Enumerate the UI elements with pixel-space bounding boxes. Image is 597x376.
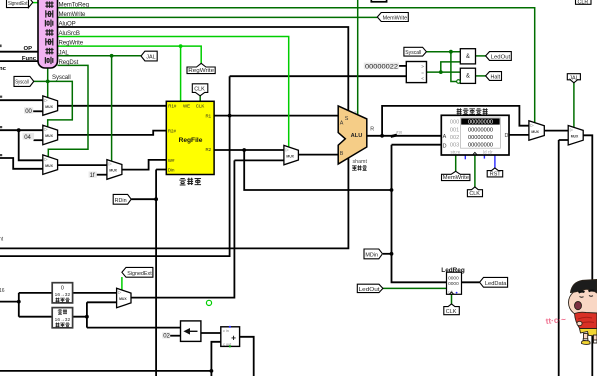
- svg-text:MUX: MUX: [45, 105, 53, 109]
- svg-text:CLK: CLK: [196, 104, 205, 109]
- svg-text:shamt: shamt: [353, 159, 368, 165]
- svg-text:Syscall: Syscall: [405, 50, 421, 56]
- svg-text:S: S: [345, 116, 349, 122]
- svg-text:MUX: MUX: [119, 297, 127, 301]
- svg-text:MUX: MUX: [45, 164, 53, 168]
- svg-text:002: 002: [450, 135, 459, 141]
- svg-text:+: +: [231, 332, 236, 342]
- svg-text:Halt: Halt: [491, 75, 501, 81]
- svg-text:LedOut: LedOut: [359, 287, 381, 293]
- svg-text:WE: WE: [183, 104, 190, 109]
- svg-text:&: &: [466, 54, 470, 60]
- svg-text:R2: R2: [206, 147, 212, 152]
- svg-text:00000022: 00000022: [365, 64, 399, 70]
- svg-text:CLK: CLK: [469, 191, 480, 197]
- svg-text:Syscall: Syscall: [15, 80, 29, 86]
- svg-text:0: 0: [61, 286, 64, 292]
- svg-text:CLR: CLR: [578, 0, 589, 5]
- svg-text:16: 16: [0, 288, 5, 294]
- svg-text:R1: R1: [206, 113, 212, 118]
- svg-text:16→32: 16→32: [55, 292, 71, 298]
- svg-text:04: 04: [24, 135, 31, 141]
- svg-text:A: A: [443, 134, 447, 140]
- svg-text:MDin: MDin: [365, 252, 378, 258]
- svg-text:W#: W#: [168, 158, 175, 163]
- svg-text:R: R: [370, 126, 374, 132]
- svg-text:MUX: MUX: [531, 130, 539, 134]
- svg-text:R1#: R1#: [168, 104, 177, 109]
- svg-text:D: D: [443, 143, 447, 149]
- svg-text:AluSrcB: AluSrcB: [59, 30, 80, 37]
- svg-text:MemWrite: MemWrite: [443, 175, 469, 181]
- svg-text:JAL: JAL: [59, 49, 70, 56]
- svg-text:0000: 0000: [448, 281, 459, 287]
- svg-text:RST: RST: [490, 172, 501, 178]
- svg-text:RegFile: RegFile: [179, 137, 203, 144]
- svg-text:000: 000: [450, 120, 459, 126]
- svg-text:16→32: 16→32: [55, 317, 71, 323]
- svg-text:00000000: 00000000: [468, 142, 493, 148]
- svg-text:00000000: 00000000: [468, 120, 493, 126]
- svg-text:<: <: [421, 76, 424, 81]
- svg-text:LedOut: LedOut: [491, 54, 511, 60]
- svg-text:001: 001: [450, 127, 459, 133]
- svg-text:RDin: RDin: [115, 198, 127, 204]
- svg-text:RegWrite: RegWrite: [59, 40, 84, 47]
- svg-text:0000: 0000: [448, 276, 459, 282]
- svg-text:nc: nc: [0, 66, 7, 72]
- svg-text:B: B: [340, 151, 344, 157]
- svg-text:str,re: str,re: [451, 150, 461, 155]
- svg-text:JAL: JAL: [569, 75, 578, 81]
- svg-text:00: 00: [25, 109, 32, 115]
- svg-text:MemWrite: MemWrite: [59, 11, 87, 18]
- svg-text:#16: #16: [396, 130, 402, 134]
- svg-text:JAL: JAL: [146, 54, 155, 60]
- svg-text:1f: 1f: [90, 173, 95, 179]
- svg-text:MemWrite: MemWrite: [383, 15, 408, 21]
- svg-text:=: =: [421, 70, 424, 75]
- svg-text:CLK: CLK: [446, 309, 457, 315]
- svg-text:LedData: LedData: [485, 281, 507, 287]
- svg-text:Func: Func: [22, 56, 37, 62]
- svg-text:MUX: MUX: [286, 154, 294, 158]
- svg-text:00000000: 00000000: [468, 127, 493, 133]
- svg-text:MUX: MUX: [109, 169, 117, 173]
- svg-text:SignedExt: SignedExt: [8, 1, 28, 7]
- svg-text:02: 02: [163, 334, 170, 340]
- svg-text:003: 003: [450, 142, 459, 148]
- svg-text:R2#: R2#: [168, 128, 177, 133]
- svg-text:MemToReg: MemToReg: [59, 1, 89, 8]
- svg-text:>: >: [421, 64, 424, 69]
- svg-text:A: A: [340, 121, 344, 127]
- svg-text:MUX: MUX: [571, 135, 579, 139]
- svg-text:D: D: [505, 133, 509, 139]
- svg-text:CLK: CLK: [194, 87, 205, 93]
- svg-text:SignedExt: SignedExt: [127, 271, 152, 277]
- svg-text:AluOP: AluOP: [59, 21, 76, 28]
- svg-text:c in: c in: [223, 329, 229, 333]
- svg-text:ALU: ALU: [351, 133, 363, 139]
- svg-text:|d c|r: |d c|r: [483, 150, 493, 155]
- svg-text:MUX: MUX: [45, 134, 53, 138]
- svg-text:RegDst: RegDst: [59, 59, 79, 66]
- svg-text:00000000: 00000000: [468, 135, 493, 141]
- svg-text:OP: OP: [23, 46, 32, 52]
- svg-text:Syscall: Syscall: [52, 74, 71, 81]
- svg-text:Din: Din: [168, 167, 175, 172]
- svg-text:&: &: [466, 74, 470, 80]
- svg-text:RegWrite: RegWrite: [188, 68, 214, 74]
